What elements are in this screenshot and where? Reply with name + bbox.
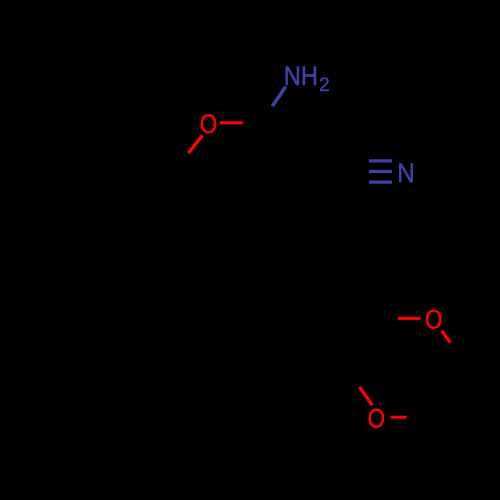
svg-text:2: 2 (319, 75, 330, 96)
svg-text:N: N (397, 158, 415, 188)
svg-text:O: O (368, 404, 386, 434)
svg-text:O: O (200, 109, 218, 139)
svg-text:O: O (425, 304, 443, 334)
bond O1-C2 (oxygen half, red) (220, 121, 243, 124)
bond O1-C8a (oxygen half, red) (188, 135, 202, 153)
bond C2-NH2 (nitrogen half, blue) (272, 87, 285, 107)
svg-text:NH: NH (284, 61, 318, 91)
bond aryl-O2 (oxygen half, red) (398, 317, 421, 320)
bond O2-CH3 (oxygen half, red) (442, 331, 451, 343)
nitrile triple bond C#N (nitrogen half, blue) (369, 161, 392, 182)
bond aryl-O3 (oxygen half, red) (360, 387, 373, 405)
amino group NH2 label (284, 61, 330, 96)
bond O3-CH3 (oxygen half, red) (391, 416, 407, 419)
